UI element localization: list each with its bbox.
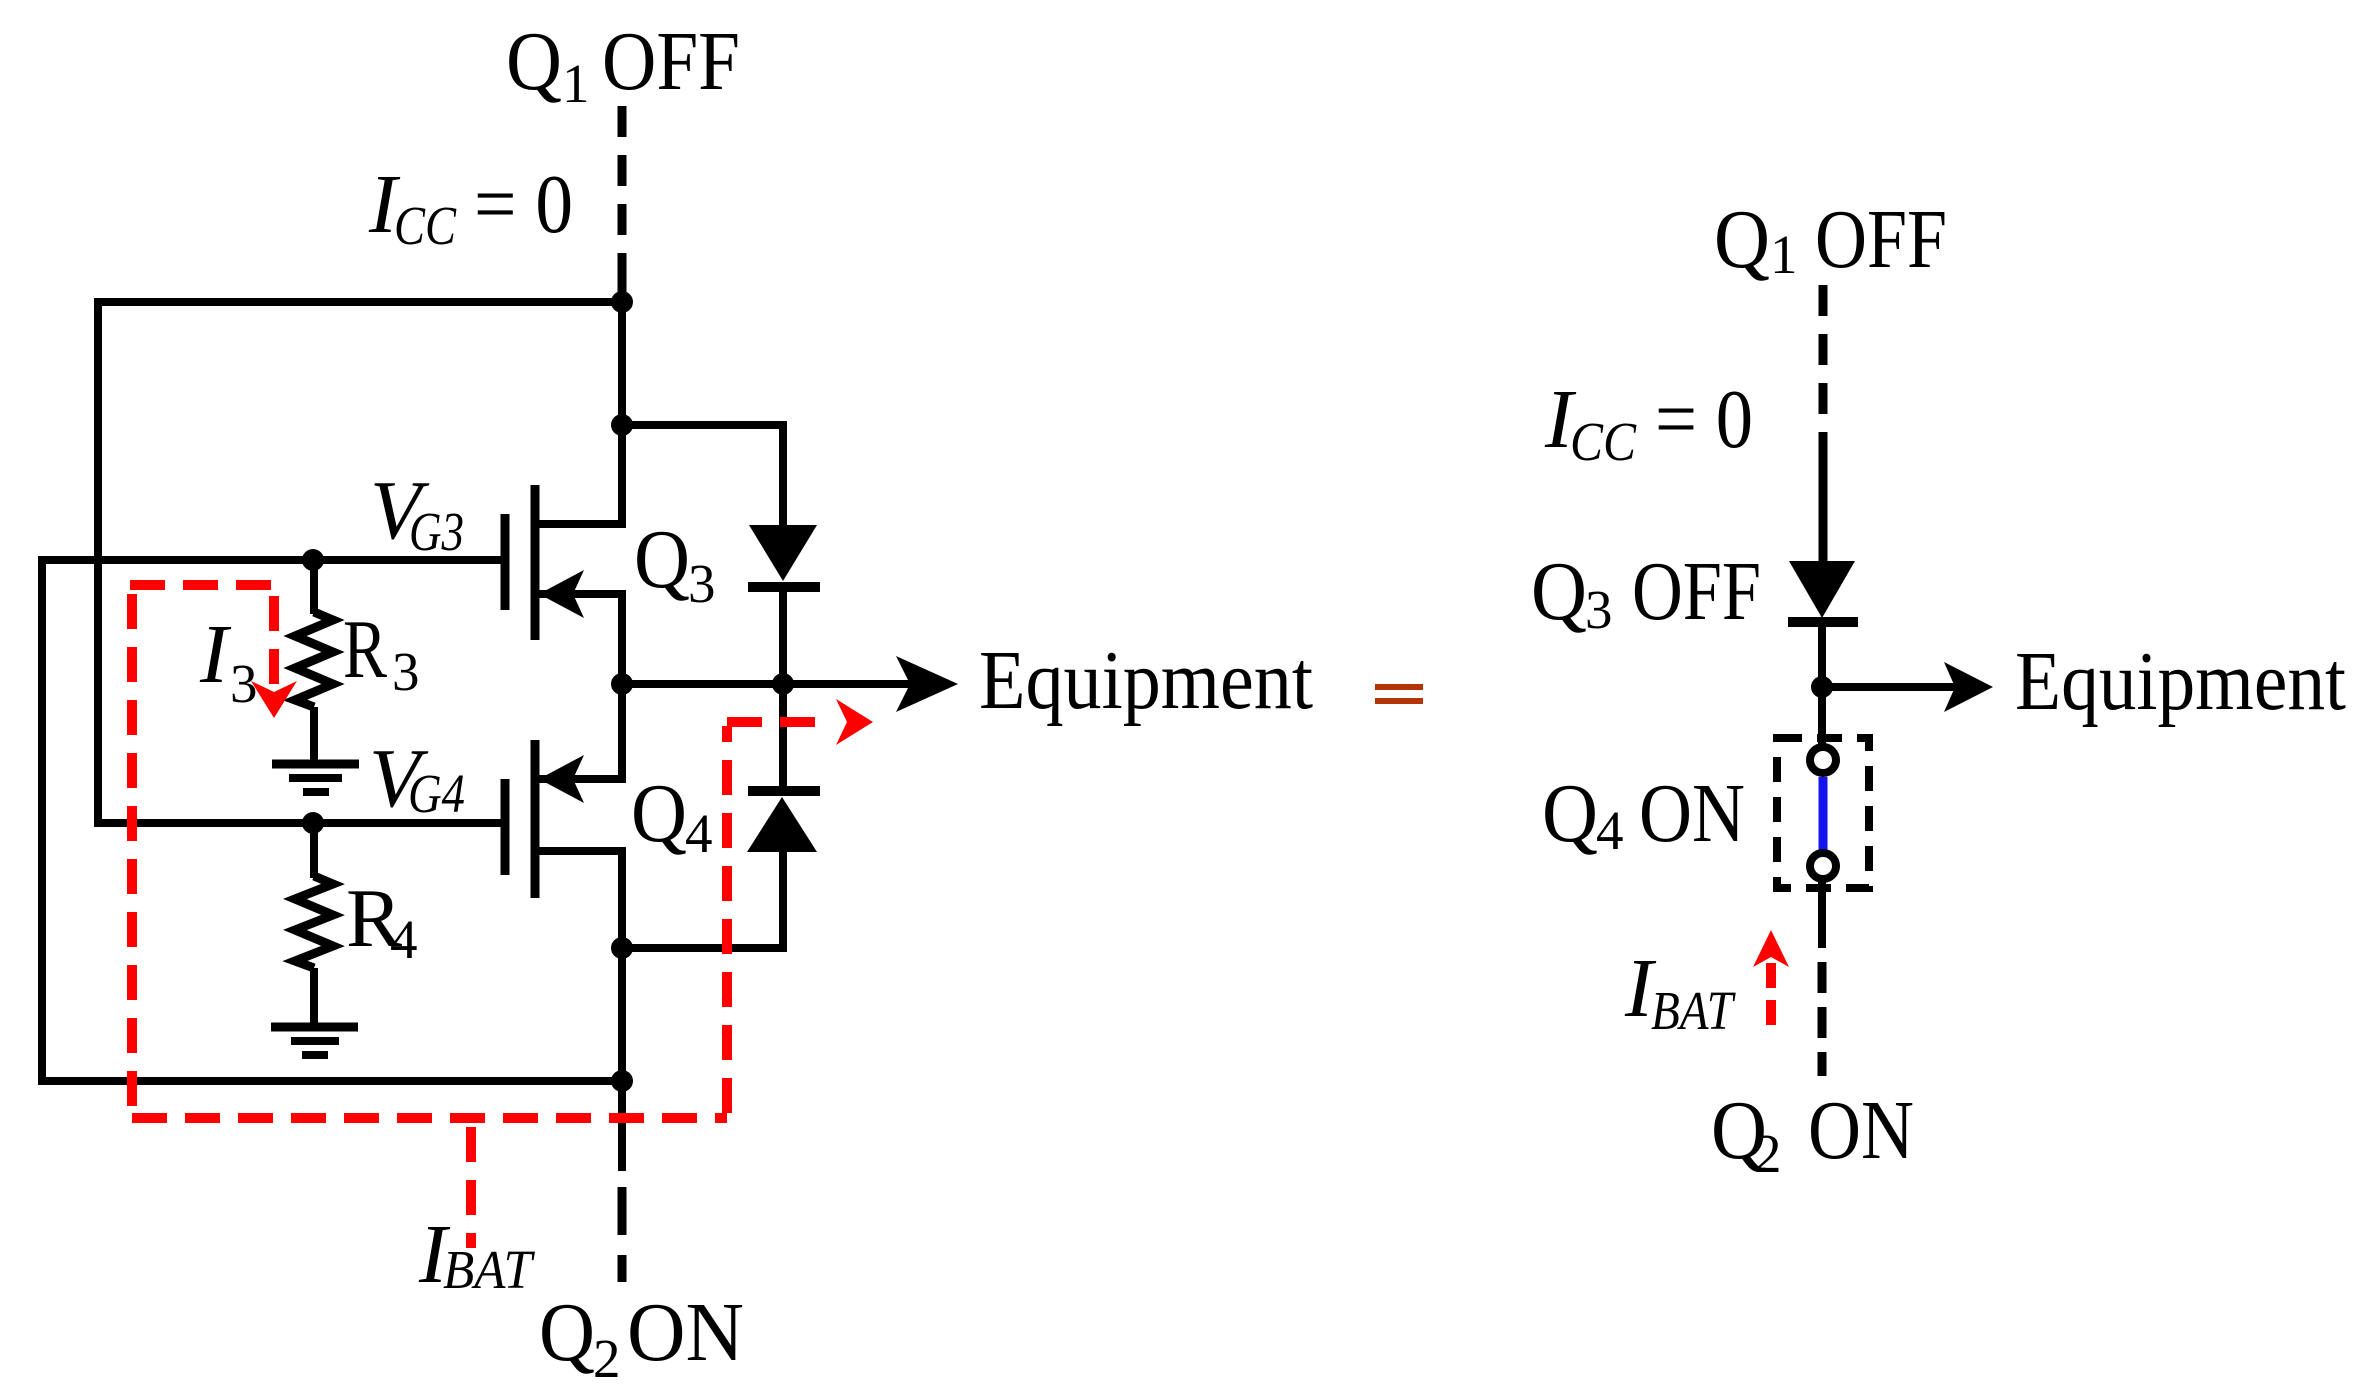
node Q4 source junction [611, 937, 633, 959]
switch box dashed (Q4 equivalent) [1777, 738, 1869, 888]
svg-text:G3: G3 [409, 501, 464, 562]
node output center [611, 673, 633, 695]
wire switch to battery stub (right) [1818, 878, 1826, 948]
wire Q4 source lead [539, 851, 622, 948]
label Q2 ON (left) [539, 1286, 744, 1389]
svg-text:R: R [343, 603, 387, 696]
svg-text:Q: Q [506, 15, 562, 108]
label Q4 [631, 767, 713, 864]
label ICC = 0 (left) [368, 158, 573, 256]
wire node to switch top (right) [1818, 687, 1826, 748]
svg-text:BAT: BAT [1651, 980, 1736, 1041]
wire center column top [618, 302, 626, 425]
current indicator I3 dashed (red) [130, 585, 277, 684]
svg-text:Q: Q [539, 1286, 595, 1379]
svg-text:2: 2 [1754, 1123, 1782, 1184]
ground below R3 [272, 764, 359, 792]
node Q3 drain junction [611, 414, 633, 436]
wire D4 anode to source node [622, 850, 783, 948]
wire equipment output (left) [622, 680, 925, 688]
label R4 [346, 872, 418, 970]
wire Q2 dashed stub (right) [1818, 962, 1827, 1076]
wire Q1 dashed stub (right) [1819, 285, 1828, 563]
wire Q3 drain lead [537, 425, 622, 524]
transistor Q3 gate and channel bars [505, 485, 535, 640]
diode D (right, Q3 equivalent) [1788, 561, 1858, 622]
svg-text:ON: ON [627, 1286, 744, 1379]
svg-text:4: 4 [685, 803, 713, 864]
svg-text:CC: CC [394, 195, 457, 256]
svg-text:1: 1 [1770, 224, 1798, 285]
label IBAT (right) [1624, 942, 1736, 1041]
node supply junction top [611, 291, 633, 313]
svg-text:1: 1 [562, 53, 590, 114]
label ICC = 0 (right) [1544, 373, 1753, 472]
svg-text:Q: Q [631, 767, 687, 860]
svg-text:Q: Q [1542, 767, 1598, 860]
arrow equipment (left) [896, 656, 958, 712]
svg-text:G4: G4 [408, 763, 465, 824]
svg-text:3: 3 [688, 553, 716, 614]
node output diode branch [772, 673, 794, 695]
svg-text:ON: ON [1639, 767, 1745, 860]
svg-text:3: 3 [392, 641, 420, 702]
svg-text:Equipment: Equipment [2015, 635, 2346, 728]
transistor Q4 drain arrow [539, 755, 584, 803]
arrow I3 (red, down) [251, 681, 297, 718]
transistor Q1 label "Q1 OFF" (left) [506, 15, 740, 114]
label VG3 [370, 464, 464, 562]
wire diode to output node (right) [1818, 622, 1826, 687]
transistor Q4 gate and channel bars [505, 740, 535, 898]
label Q3 [634, 513, 716, 614]
label Q3 OFF [1531, 545, 1761, 640]
equals sign [1375, 684, 1423, 704]
switch contact top [1810, 747, 1836, 773]
wire Q4 drain lead [539, 684, 622, 779]
label VG4 [369, 732, 465, 825]
svg-text:Q: Q [634, 513, 690, 606]
arrow IBAT loop (red, right) [836, 699, 873, 745]
svg-text:= 0: = 0 [474, 158, 573, 251]
diode D4 (Q4 body diode) [747, 791, 820, 852]
wire Q3 source lead [539, 594, 622, 684]
wire D4 cathode branch [779, 684, 787, 788]
wire VG3 gate rail, left rail x42 and bottom rail [42, 560, 622, 1081]
label I3 [199, 608, 258, 714]
svg-text:OFF: OFF [602, 15, 740, 108]
transistor Q1 label "Q1 OFF" (right) [1714, 193, 1947, 286]
svg-text:4: 4 [390, 909, 418, 970]
svg-text:OFF: OFF [1632, 545, 1761, 638]
svg-text:OFF: OFF [1815, 193, 1947, 286]
current loop IBAT dashed (red) [132, 594, 830, 1248]
wire top rail, left rail x98 and VG4 gate rail [98, 302, 622, 823]
label Q4 ON [1542, 767, 1745, 861]
svg-text:Q: Q [1531, 545, 1587, 638]
node output (right) [1811, 676, 1833, 698]
arrow IBAT (red, up) [1753, 930, 1789, 967]
label IBAT (left) [418, 1208, 535, 1301]
arrow equipment (right) [1944, 662, 1993, 712]
svg-text:Q: Q [1714, 193, 1770, 286]
resistor R4 [295, 823, 333, 1024]
switch contact bottom [1810, 853, 1836, 879]
wire Q1 drain dashed stub (left) [618, 106, 627, 306]
svg-text:= 0: = 0 [1655, 373, 1753, 466]
switch blade (blue) [1819, 777, 1828, 851]
label R3 [343, 603, 420, 702]
wire Q2 solid stub (left) [618, 1081, 626, 1171]
diode D3 (Q3 body diode) [748, 525, 820, 587]
node VG4 junction [302, 812, 324, 834]
wire Q2 dashed stub (left) [618, 1187, 627, 1283]
node VG3 junction [302, 549, 324, 571]
wire Q3 body-diode branch top [622, 425, 783, 529]
wire D3 cathode to output node [779, 587, 787, 684]
svg-text:I: I [199, 608, 232, 701]
svg-text:CC: CC [1570, 411, 1637, 472]
svg-text:4: 4 [1596, 800, 1624, 861]
wire source column to bottom rail [618, 948, 626, 1081]
svg-text:ON: ON [1808, 1084, 1914, 1177]
svg-text:2: 2 [593, 1328, 621, 1389]
label Q2 ON (right) [1711, 1084, 1914, 1184]
svg-text:3: 3 [1585, 579, 1613, 640]
svg-text:BAT: BAT [443, 1239, 535, 1300]
wire IBAT red dashed shaft [1766, 963, 1776, 1030]
svg-text:Equipment: Equipment [979, 634, 1313, 727]
transistor Q3 source arrow [539, 570, 584, 618]
ground below R4 [271, 1027, 358, 1055]
node bottom rail junction [611, 1070, 633, 1092]
resistor R3 [295, 560, 333, 761]
wire equipment output (right) [1822, 683, 1960, 691]
